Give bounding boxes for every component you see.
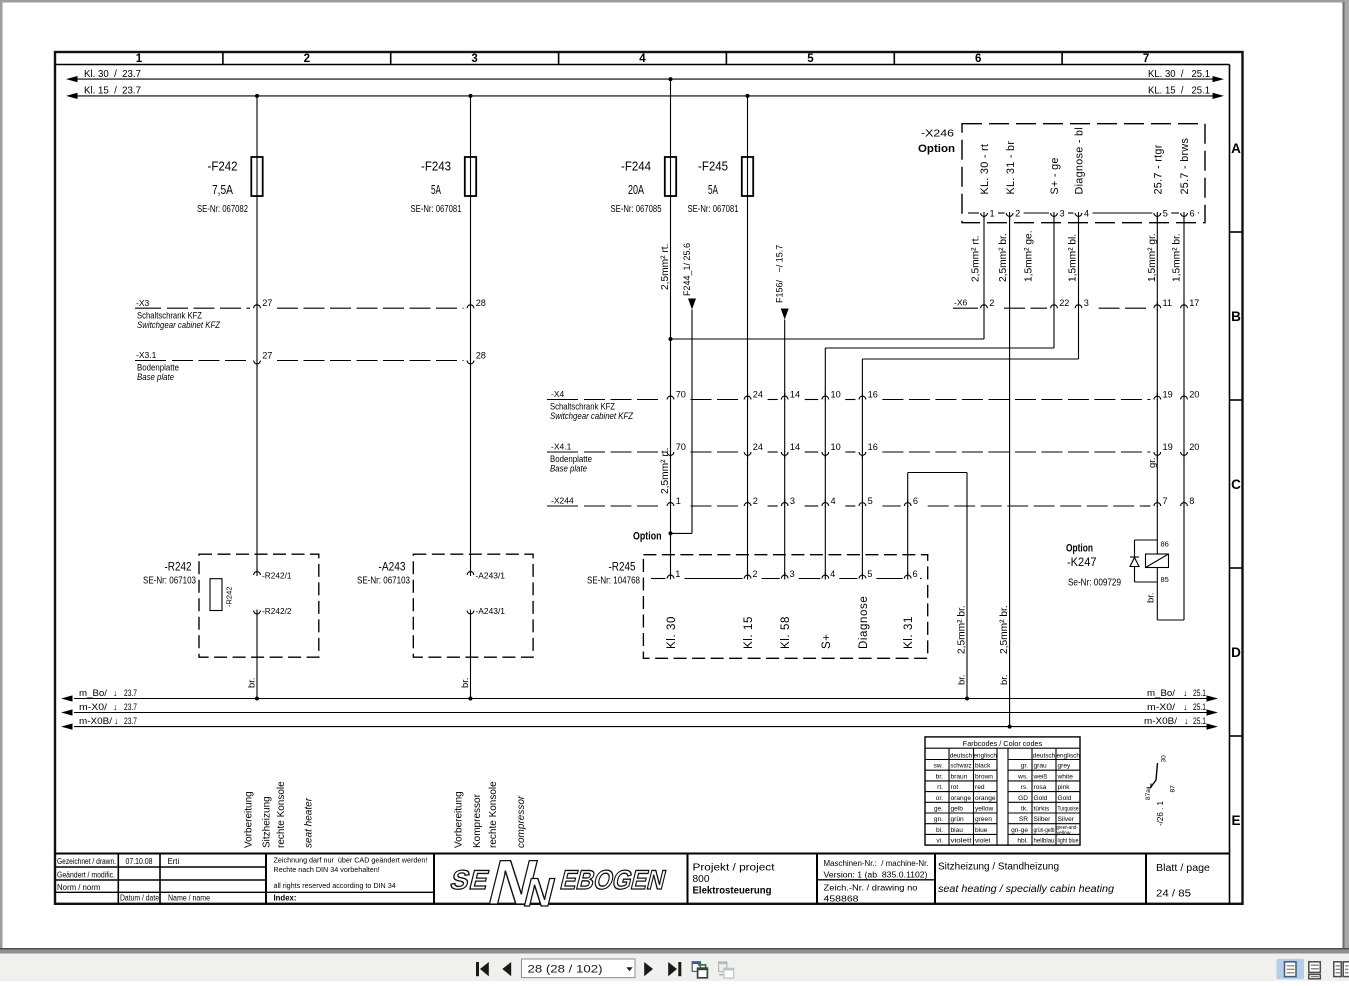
off-page wire F244_1/25.6 [671, 243, 697, 533]
svg-text:86: 86 [1161, 540, 1169, 549]
title block drawn/modified rows [57, 857, 210, 903]
svg-text:Farbcodes / Color codes: Farbcodes / Color codes [963, 739, 1043, 748]
svg-text:-F244: -F244 [621, 159, 651, 174]
svg-text:Base plate: Base plate [137, 372, 174, 382]
svg-text:-F245: -F245 [698, 159, 728, 174]
svg-text:23.7: 23.7 [124, 702, 137, 713]
function text: compressor console [454, 781, 528, 848]
svg-text:2,5mm² rt.: 2,5mm² rt. [660, 244, 671, 290]
svg-text:Norm / norm: Norm / norm [57, 883, 100, 892]
svg-text:5: 5 [868, 496, 873, 506]
wire label 1,5mm2 ge. (X246.3) [1024, 230, 1035, 282]
svg-text:3: 3 [1084, 298, 1089, 308]
svg-text:englisch: englisch [973, 753, 997, 760]
svg-text:Gezeichnet / drawn.: Gezeichnet / drawn. [57, 857, 116, 866]
svg-text:Schaltschrank KFZ: Schaltschrank KFZ [137, 310, 203, 320]
svg-text:6: 6 [913, 569, 918, 579]
svg-text:-X6: -X6 [954, 298, 968, 308]
svg-text:16: 16 [868, 390, 878, 400]
svg-text:1,5mm² ge.: 1,5mm² ge. [1024, 230, 1035, 282]
svg-text:Gold: Gold [1058, 795, 1072, 802]
fuse -F242 7,5A [197, 157, 263, 215]
svg-text:28 (28 / 102): 28 (28 / 102) [528, 963, 603, 975]
svg-text:orange: orange [975, 795, 996, 802]
wire label 1,5mm2 bl. (X246.4) [1068, 234, 1079, 282]
svg-text:14: 14 [790, 390, 800, 400]
SENNEBOGEN logo [442, 847, 674, 918]
wire from KL.15 to fuse -F242 and load [255, 94, 259, 157]
svg-text:seat heating / specially cabin: seat heating / specially cabin heating [938, 884, 1114, 895]
svg-text:m-X0/: m-X0/ [79, 702, 107, 713]
relay K247 (Option) [1066, 540, 1169, 589]
svg-text:Turquoise: Turquoise [1058, 806, 1079, 813]
wire label 1,5mm2 gr. (X246.5) [1147, 233, 1158, 282]
svg-text:SE: SE [448, 864, 494, 895]
svg-text:all rights reserved according: all rights reserved according to DIN 34 [274, 881, 396, 890]
svg-text:20: 20 [1189, 390, 1199, 400]
svg-text:↓: ↓ [1184, 716, 1189, 726]
svg-text:weiß: weiß [1033, 773, 1048, 780]
svg-text:Erti: Erti [168, 857, 180, 866]
svg-text:grün: grün [951, 816, 965, 823]
svg-text:m_Bo/: m_Bo/ [79, 688, 107, 699]
svg-text:E: E [1231, 813, 1240, 828]
color code table [925, 737, 1080, 845]
svg-text:4: 4 [830, 569, 835, 579]
svg-text:Silver: Silver [1058, 816, 1075, 823]
svg-text:grey: grey [1058, 763, 1072, 770]
svg-text:blau: blau [951, 827, 964, 834]
svg-text:25.1: 25.1 [1193, 688, 1206, 699]
net m_Bo bottom rail [61, 688, 1218, 702]
title block rights notice [274, 856, 428, 903]
svg-text:-A243: -A243 [379, 560, 406, 574]
svg-text:Bodenplatte: Bodenplatte [137, 363, 179, 373]
svg-text:braun: braun [951, 773, 968, 780]
svg-text:KL. 30 / 25.1: KL. 30 / 25.1 [1148, 69, 1210, 80]
svg-text:-/26 . 1: -/26 . 1 [1156, 801, 1165, 826]
svg-text:Gold: Gold [1034, 795, 1048, 802]
svg-text:Blatt / page: Blatt / page [1156, 863, 1210, 874]
seat heating unit R245 [587, 555, 928, 659]
wire F242 output down to R242 [255, 196, 259, 701]
svg-text:87a: 87a [1145, 789, 1152, 800]
svg-text:30: 30 [1161, 755, 1168, 763]
svg-text:-X244: -X244 [551, 495, 574, 505]
svg-text:2: 2 [753, 496, 758, 506]
title block project cell [693, 863, 775, 897]
wire label br. (A243 ground) [460, 677, 471, 688]
svg-text:1,5mm² bl.: 1,5mm² bl. [1068, 234, 1079, 282]
svg-text:compressor: compressor [516, 795, 527, 848]
svg-text:yellow: yellow [1057, 831, 1072, 837]
net KL.15 top rail [66, 86, 1224, 99]
connector -X244 [547, 495, 1194, 507]
svg-text:3: 3 [790, 569, 795, 579]
svg-text:SE-Nr: 104768: SE-Nr: 104768 [587, 576, 640, 587]
wire label 2,5mm2 rt. (X246.1) [971, 236, 982, 282]
connector -X6 [953, 298, 1199, 310]
svg-text:br.: br. [1146, 592, 1157, 603]
connector -X4 Schaltschrank KFZ [547, 389, 1199, 421]
svg-text:3: 3 [471, 53, 477, 65]
fuse -F244 20A [611, 157, 677, 215]
toolbar prev-page button [502, 962, 511, 976]
wire X246:6 via X244:8 to K247 return [1157, 213, 1184, 620]
svg-text:Elektrosteuerung: Elektrosteuerung [693, 885, 772, 896]
wire label gr. (X4.1:19) [1147, 457, 1158, 468]
svg-text:bl.: bl. [936, 827, 943, 834]
connector -X3.1 Bodenplatte [135, 350, 486, 382]
svg-text:C: C [1231, 477, 1241, 492]
svg-text:-A243/1: -A243/1 [476, 571, 506, 581]
svg-text:Kl. 15 / 23.7: Kl. 15 / 23.7 [84, 86, 141, 97]
connector -X246 Option [918, 124, 1205, 223]
svg-text:20A: 20A [628, 182, 644, 197]
svg-text:27: 27 [262, 298, 272, 308]
svg-text:2,5mm² br.: 2,5mm² br. [957, 605, 968, 654]
svg-text:A: A [1231, 141, 1241, 156]
svg-text:rechte Konsole: rechte Konsole [488, 781, 499, 848]
svg-text:SE-Nr: 067081: SE-Nr: 067081 [411, 204, 462, 215]
wire label 2,5mm2 br. + br. (KL.31 wire) [999, 605, 1010, 685]
svg-text:KL. 15 / 25.1: KL. 15 / 25.1 [1148, 86, 1210, 97]
view dual-page icon [1334, 962, 1349, 977]
svg-text:Projekt / project: Projekt / project [693, 863, 775, 874]
svg-text:25.1: 25.1 [1193, 716, 1206, 727]
svg-text:Diagnose: Diagnose [858, 596, 870, 649]
svg-text:2,5mm² br.: 2,5mm² br. [999, 605, 1010, 654]
svg-text:28: 28 [476, 351, 486, 361]
svg-text:Zeich.-Nr. / drawing no: Zeich.-Nr. / drawing no [824, 883, 918, 893]
svg-text:1: 1 [136, 53, 143, 65]
svg-text:englisch: englisch [1056, 753, 1080, 760]
svg-text:grün-gelb: grün-gelb [1034, 827, 1055, 834]
function text: seat heater console [244, 781, 315, 848]
column ruler numbers [136, 52, 1150, 65]
svg-text:blue: blue [975, 827, 988, 834]
svg-text:gr.: gr. [1147, 457, 1158, 468]
svg-text:20: 20 [1189, 442, 1199, 452]
svg-text:Option: Option [1066, 542, 1093, 554]
svg-text:m-X0B/: m-X0B/ [1144, 716, 1177, 727]
svg-text:16: 16 [868, 442, 878, 452]
svg-text:2,5mm² rt.: 2,5mm² rt. [660, 448, 671, 494]
svg-text:Datum / date: Datum / date [120, 894, 159, 903]
svg-text:6: 6 [913, 496, 918, 506]
svg-text:-R242/1: -R242/1 [262, 571, 292, 581]
fuse -F243 5A [411, 157, 477, 215]
toolbar last-page button [668, 962, 681, 976]
svg-text:Kl. 58: Kl. 58 [780, 616, 792, 649]
svg-text:gr.: gr. [1021, 763, 1028, 770]
svg-text:5: 5 [867, 569, 872, 579]
svg-text:or.: or. [936, 795, 943, 802]
row ruler letters [1230, 141, 1243, 828]
svg-text:Option: Option [633, 531, 662, 543]
wire X246:5 via X244:7 to K247 coil [1156, 213, 1158, 554]
svg-text:-A243/1: -A243/1 [476, 606, 506, 616]
wire Diagnose branch X6:3 to R245 pin5 [862, 213, 1078, 576]
wire label br. (K247 return) [1146, 592, 1157, 603]
svg-text:11: 11 [1163, 298, 1173, 308]
svg-text:S+: S+ [821, 633, 833, 649]
svg-text:rot: rot [951, 784, 959, 791]
svg-text:gn-ge: gn-ge [1011, 827, 1028, 834]
wire label 2,5mm2 br. (X246.2) [998, 233, 1009, 282]
svg-text:vi.: vi. [936, 838, 943, 845]
svg-text:6: 6 [1190, 209, 1195, 219]
svg-text:Vorbereitung: Vorbereitung [244, 791, 255, 848]
svg-text:black: black [975, 763, 991, 770]
wire S+ branch X6:22 to R245 pin4 [825, 213, 1054, 576]
svg-text:Silber: Silber [1034, 816, 1052, 823]
svg-text:5A: 5A [708, 182, 718, 197]
svg-text:orange: orange [951, 795, 972, 802]
svg-text:2,5mm² rt.: 2,5mm² rt. [971, 236, 982, 282]
svg-text:↓: ↓ [113, 688, 118, 698]
svg-text:70: 70 [676, 390, 686, 400]
svg-text:↓: ↓ [1183, 688, 1188, 698]
svg-text:F156/ ~/ 15.7: F156/ ~/ 15.7 [775, 245, 785, 303]
svg-text:2: 2 [304, 53, 310, 65]
svg-text:10: 10 [831, 390, 841, 400]
svg-text:Switchgear cabinet KFZ: Switchgear cabinet KFZ [137, 320, 221, 330]
svg-text:-X246: -X246 [921, 128, 954, 140]
svg-text:-K247: -K247 [1067, 555, 1097, 569]
svg-text:4: 4 [831, 496, 836, 506]
svg-text:rt.: rt. [937, 784, 943, 791]
toolbar history-forward icon (disabled) [719, 962, 734, 978]
svg-text:19: 19 [1163, 442, 1173, 452]
svg-text:tk.: tk. [1021, 806, 1028, 813]
svg-text:schwarz: schwarz [951, 763, 972, 770]
svg-text:1: 1 [675, 569, 680, 579]
heater R242 [143, 554, 319, 657]
svg-text:24: 24 [753, 390, 763, 400]
svg-text:1: 1 [990, 209, 995, 219]
svg-text:800: 800 [693, 874, 710, 885]
svg-text:S+ - ge: S+ - ge [1049, 157, 1061, 194]
svg-text:Kompressor: Kompressor [472, 793, 483, 848]
svg-text:Base plate: Base plate [550, 464, 587, 474]
svg-text:ws.: ws. [1017, 773, 1028, 780]
svg-text:Se-Nr: 009729: Se-Nr: 009729 [1068, 578, 1121, 589]
svg-text:25.7 - brws: 25.7 - brws [1179, 137, 1191, 194]
svg-text:hbl.: hbl. [1017, 838, 1028, 845]
svg-text:hellblau: hellblau [1034, 838, 1055, 845]
svg-text:br.: br. [247, 677, 258, 688]
title block machine number cell [824, 859, 929, 903]
svg-text:↓: ↓ [114, 716, 119, 726]
svg-text:F244_1/ 25.6: F244_1/ 25.6 [682, 243, 692, 296]
svg-text:1,5mm² br.: 1,5mm² br. [1172, 233, 1183, 282]
svg-text:14: 14 [790, 442, 800, 452]
svg-text:-X3: -X3 [136, 298, 150, 308]
svg-text:5A: 5A [431, 182, 441, 197]
title block grid [55, 854, 1230, 904]
relay contact reference -/26.1 [1145, 755, 1177, 826]
svg-text:8: 8 [1189, 496, 1194, 506]
svg-text:24: 24 [753, 442, 763, 452]
svg-text:25.1: 25.1 [1193, 702, 1206, 713]
svg-text:10: 10 [831, 442, 841, 452]
view single-page icon (active, blue) [1277, 959, 1305, 979]
svg-text:SR: SR [1019, 816, 1028, 823]
svg-text:ge.: ge. [934, 806, 943, 813]
svg-text:Rechte nach DIN 34 vorbehalten: Rechte nach DIN 34 vorbehalten! [274, 865, 380, 874]
svg-text:-R242/2: -R242/2 [262, 606, 292, 616]
svg-text:2: 2 [989, 298, 994, 308]
svg-text:4: 4 [1084, 209, 1089, 219]
svg-text:24 / 85: 24 / 85 [1156, 889, 1191, 900]
svg-text:rosa: rosa [1034, 784, 1047, 791]
net m-X0 bottom rail [61, 702, 1218, 716]
toolbar next-page button [644, 962, 653, 976]
view continuous icon [1309, 962, 1321, 979]
Option label at R245 KL.30 junction [633, 531, 662, 543]
svg-text:D: D [1231, 645, 1241, 660]
wire X246:1 KL.30 branch to F244 wire [671, 213, 985, 339]
svg-text:-R245: -R245 [609, 560, 636, 574]
wire label 2,5mm2 rt. (F244) [660, 244, 671, 290]
svg-text:Index:: Index: [274, 894, 297, 903]
wire label 1,5mm2 br. (X246.6) [1172, 233, 1183, 282]
svg-text:1,5mm² gr.: 1,5mm² gr. [1147, 233, 1158, 282]
svg-text:5: 5 [807, 53, 814, 65]
svg-text:deutsch: deutsch [950, 753, 973, 760]
drawing border frame [55, 52, 1243, 904]
svg-text:SE-Nr: 067103: SE-Nr: 067103 [143, 576, 196, 587]
svg-text:23.7: 23.7 [124, 688, 137, 699]
net KL.30 top rail [66, 69, 1224, 82]
svg-text:gn.: gn. [934, 816, 943, 823]
svg-text:-F242: -F242 [208, 159, 238, 174]
svg-text:4: 4 [639, 53, 646, 65]
svg-text:deutsch: deutsch [1033, 753, 1056, 760]
svg-text:br.: br. [936, 773, 943, 780]
svg-text:70: 70 [676, 442, 686, 452]
svg-text:Sitzheizung / Standheizung: Sitzheizung / Standheizung [938, 862, 1059, 873]
wire from KL.30 to fuse -F244 and load [669, 77, 673, 157]
svg-text:2,5mm² br.: 2,5mm² br. [998, 233, 1009, 282]
svg-text:6: 6 [975, 53, 981, 65]
svg-text:yellow: yellow [975, 806, 994, 813]
wire X246:2 KL.31 down to m-X0B rail [1008, 213, 1012, 729]
svg-text:Zeichnung darf nur über CAD g: Zeichnung darf nur über CAD geändert wer… [274, 856, 428, 865]
svg-text:22: 22 [1059, 298, 1069, 308]
svg-text:EBOGEN: EBOGEN [558, 864, 670, 895]
svg-text:-X3.1: -X3.1 [136, 350, 157, 360]
svg-text:17: 17 [1189, 298, 1199, 308]
wire F245 output down to R245 pin2 (KL.15) [747, 196, 749, 576]
wire label 2,5mm2 rt. (X244.1) [660, 448, 671, 494]
svg-text:white: white [1057, 773, 1074, 780]
svg-text:2: 2 [1015, 209, 1020, 219]
svg-text:Kl. 31: Kl. 31 [903, 616, 915, 649]
svg-text:-X4.1: -X4.1 [551, 442, 572, 452]
svg-text:Maschinen-Nr.: / machine-Nr.: Maschinen-Nr.: / machine-Nr. [824, 859, 929, 868]
wire R245 pin6 KL.31 via X244:6 to m_Bo rail [908, 473, 969, 701]
off-page wire F156/15.7 (KL.58) [775, 245, 789, 576]
wire from KL.15 to fuse -F243 and load [469, 94, 473, 157]
svg-text:red: red [975, 784, 985, 791]
svg-text:-R242: -R242 [165, 560, 192, 574]
svg-text:27: 27 [262, 351, 272, 361]
svg-text:SE-Nr: 067082: SE-Nr: 067082 [197, 204, 248, 215]
svg-text:-F243: -F243 [421, 159, 451, 174]
svg-text:SE-Nr: 067081: SE-Nr: 067081 [688, 204, 739, 215]
svg-text:7: 7 [1163, 496, 1168, 506]
toolbar page combo box [522, 959, 636, 978]
svg-text:GD: GD [1018, 795, 1028, 802]
svg-text:rs.: rs. [1021, 784, 1028, 791]
svg-text:green: green [975, 816, 992, 823]
compressor prep A243 [357, 554, 533, 657]
svg-text:rechte Konsole: rechte Konsole [276, 781, 287, 848]
svg-text:türkis: türkis [1034, 806, 1050, 813]
svg-text:br.: br. [957, 674, 968, 685]
svg-text:Kl. 30 / 23.7: Kl. 30 / 23.7 [84, 69, 141, 80]
svg-text:m-X0B/: m-X0B/ [79, 716, 112, 727]
svg-text:KL. 31 - br: KL. 31 - br [1005, 141, 1017, 195]
svg-text:Sitzheizung: Sitzheizung [262, 796, 273, 848]
svg-text:-X4: -X4 [551, 389, 565, 399]
svg-text:Name / name: Name / name [168, 894, 210, 903]
svg-text:brown: brown [975, 773, 993, 780]
svg-text:light blue: light blue [1058, 838, 1079, 845]
svg-text:m-X0/: m-X0/ [1147, 702, 1175, 713]
net m-X0B bottom rail [61, 716, 1218, 730]
svg-text:458868: 458868 [824, 893, 859, 903]
svg-text:Vorbereitung: Vorbereitung [454, 791, 465, 848]
svg-text:br.: br. [460, 677, 471, 688]
svg-text:violet: violet [975, 838, 991, 845]
svg-text:B: B [1231, 309, 1241, 324]
wire F244 output down to R245 pin1 (KL.30) [669, 196, 673, 576]
svg-text:Diagnose - bl: Diagnose - bl [1074, 127, 1086, 195]
svg-text:Bodenplatte: Bodenplatte [550, 454, 592, 464]
svg-text:sw.: sw. [933, 763, 943, 770]
svg-text:↓: ↓ [113, 702, 118, 712]
svg-text:Schaltschrank KFZ: Schaltschrank KFZ [550, 402, 616, 412]
svg-text:19: 19 [1163, 390, 1173, 400]
svg-text:Version: 1 (ab 835.0.1102): Version: 1 (ab 835.0.1102) [824, 870, 928, 879]
svg-text:KL. 30 - rt: KL. 30 - rt [979, 144, 991, 195]
svg-text:07.10.08: 07.10.08 [126, 857, 153, 866]
svg-text:Switchgear cabinet KFZ: Switchgear cabinet KFZ [550, 411, 634, 421]
fuse -F245 5A [688, 157, 754, 215]
wire label 2,5mm2 br. + br. (R245 ground wire) [957, 605, 968, 685]
svg-text:28: 28 [476, 298, 486, 308]
title block drawing title cell [938, 862, 1114, 896]
svg-text:Kl. 30: Kl. 30 [666, 616, 678, 649]
svg-text:SE-Nr: 067103: SE-Nr: 067103 [357, 576, 410, 587]
svg-text:-R242: -R242 [225, 587, 234, 607]
svg-text:violett: violett [951, 838, 972, 845]
svg-text:Geändert / modific.: Geändert / modific. [57, 871, 115, 880]
svg-text:3: 3 [1060, 209, 1065, 219]
svg-text:seat heater: seat heater [304, 797, 315, 848]
svg-text:7,5A: 7,5A [212, 182, 233, 197]
suppressor diode of K247 [1130, 540, 1157, 582]
svg-text:25.7 - rtgr: 25.7 - rtgr [1153, 144, 1165, 194]
svg-text:Option: Option [918, 143, 955, 155]
svg-text:1: 1 [676, 496, 681, 506]
svg-text:5: 5 [1163, 209, 1168, 219]
svg-text:2: 2 [752, 569, 757, 579]
svg-text:7: 7 [1143, 53, 1149, 65]
